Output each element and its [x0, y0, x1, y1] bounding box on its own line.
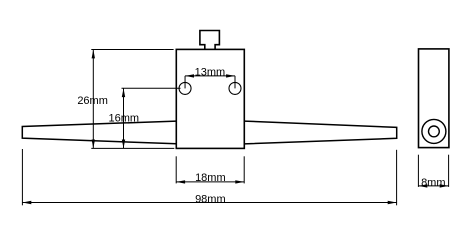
svg-text:98mm: 98mm: [195, 194, 226, 206]
dimension 16mm (hole line to block bottom): [122, 88, 181, 148]
svg-text:13mm: 13mm: [195, 66, 226, 78]
dimension 13mm between holes: [185, 76, 235, 89]
side view body: [419, 49, 449, 148]
left tapered arm: [22, 121, 176, 144]
main body block (front view): [176, 49, 244, 148]
dimension 8mm (side view width): [418, 155, 448, 187]
svg-text:16mm: 16mm: [109, 112, 140, 124]
dimension 98mm (overall length): [22, 149, 396, 205]
dimension 18mm (block width): [176, 156, 244, 183]
svg-text:8mm: 8mm: [421, 177, 445, 189]
right tapered arm: [244, 121, 396, 144]
side view arm bore inner circle: [429, 126, 440, 137]
left hole: [179, 82, 191, 94]
svg-text:26mm: 26mm: [77, 95, 108, 107]
mounting tab on top of block: [200, 31, 220, 50]
right hole: [229, 82, 241, 94]
svg-text:18mm: 18mm: [195, 172, 226, 184]
side view arm bore outer circle: [422, 119, 446, 143]
dimension 26mm (block height): [91, 50, 174, 149]
